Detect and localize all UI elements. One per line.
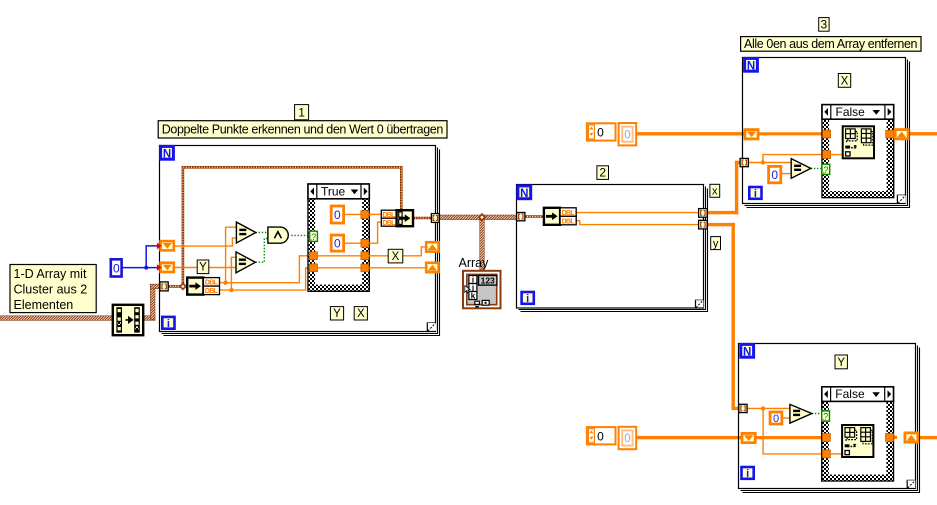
loop 4 indexing tunnel [] (element in) <box>739 404 747 412</box>
wire: cluster array from sort icon up into loop 1 tunnel <box>143 284 161 320</box>
node: equals comparator (loop 3) <box>791 159 811 179</box>
constant 0 (lower, case 1) <box>331 235 361 251</box>
loop 2 count terminal N <box>518 186 531 200</box>
loop 4 left shift register <box>742 433 755 442</box>
label X (wire label, right) <box>388 249 403 263</box>
loop 3 indexing tunnel [] (element in) <box>740 158 748 166</box>
case 1 interior wires: passthrough X and Y <box>318 256 361 268</box>
wire: loop 2 unbundle y out to right tunnel <box>576 221 698 225</box>
svg-text:y: y <box>713 238 719 250</box>
svg-text:DBL: DBL <box>382 212 396 219</box>
label: loop 3 title "Alle 0en aus dem Array entfernen" <box>741 37 921 52</box>
svg-text:i: i <box>754 188 757 200</box>
label X (bottom of loop 1) <box>354 307 367 321</box>
loop 1 left shift register lower (Y) with coercion dot <box>157 263 174 272</box>
label: free text "1-D Array mit Cluster aus 2 Elementen" <box>10 265 96 313</box>
wire: blue iteration-0 constant to both left shift registers <box>122 246 160 270</box>
wire: bundle output cluster to loop 1 right tunnel <box>413 217 431 220</box>
svg-text:Y: Y <box>333 308 341 320</box>
case 4 tunnels <box>822 434 893 458</box>
loop 4 interior wires: shift register array through case with jogs <box>753 433 897 437</box>
svg-text:0: 0 <box>334 208 341 222</box>
case 3 selector bar "False" <box>822 105 894 120</box>
node: replace array subset icon (case 3) <box>843 126 874 158</box>
junction: cluster wire branch inside loop 1 <box>179 282 187 290</box>
wire: loop 3 result array out to right edge <box>908 132 937 135</box>
loop 2 output tunnel y [] <box>699 220 708 229</box>
loop 1 right shift register upper (X) <box>426 242 438 251</box>
loop 4 right shift register <box>905 433 918 442</box>
loop 4 interior: element wire from indexing tunnel to equals and case tunnel <box>747 406 822 454</box>
svg-text:k: k <box>471 291 476 300</box>
loop 3 iteration terminal i <box>749 187 761 200</box>
loop 1 input indexing tunnel [] <box>160 282 168 291</box>
wire: empty array constant to loop 4 shift register <box>636 436 744 439</box>
wire: constant 0 to equals (loop 4) <box>782 417 790 419</box>
loop 3 left shift register <box>745 130 758 139</box>
wire: case 1 output C (X) to right shift register 1 <box>369 247 425 256</box>
label Y (inside loop 4) <box>835 355 847 369</box>
svg-text:X: X <box>392 251 400 263</box>
label y (right of loop 2) <box>711 237 721 251</box>
case 3 selector terminal ? <box>822 164 830 175</box>
svg-text:2: 2 <box>599 166 606 180</box>
wire: case 1 output D (Y) to right shift register 2 <box>369 267 425 269</box>
svg-text:123: 123 <box>481 275 495 285</box>
svg-text:N: N <box>520 188 528 200</box>
loop 3 right shift register <box>895 130 908 139</box>
wire: boolean AND output to case selector <box>291 234 309 236</box>
svg-text:i: i <box>167 318 170 330</box>
case structure 4 (False) body <box>822 387 894 481</box>
svg-text:0: 0 <box>334 237 341 251</box>
node: equals comparator 1 (X = X prev) <box>236 222 255 243</box>
wire: unbundle X out to equals 1 upper input and case tunnel <box>220 227 310 285</box>
constant 0 (loop 4) <box>770 412 782 425</box>
case 4 selector terminal ? <box>822 411 830 422</box>
case 3 tunnels and selector <box>823 130 894 158</box>
wire: cluster array branch down to Array indicator <box>480 217 485 271</box>
loop 2 input indexing tunnel [] <box>517 213 525 221</box>
loop 1 interior: cluster wire from tunnel to unbundle and around to bundle <box>168 167 401 286</box>
svg-text:1-D Array mit: 1-D Array mit <box>14 267 87 281</box>
svg-text:DBL: DBL <box>205 280 219 287</box>
svg-text:DBL: DBL <box>205 288 219 295</box>
wire: case 3 lower tunnel into replace icon <box>831 154 845 156</box>
svg-text:Elementen: Elementen <box>14 298 74 312</box>
svg-text:x: x <box>712 186 718 198</box>
node: sort 1-D array icon <box>113 305 143 335</box>
node: replace array subset icon (case 4) <box>842 425 873 457</box>
svg-text:1: 1 <box>298 105 305 119</box>
loop 3 interior: element wire from indexing tunnel to equals and case tunnel <box>749 155 823 165</box>
loop 3 count terminal N <box>745 58 758 72</box>
svg-text:DBL: DBL <box>382 220 396 227</box>
label 2 (above loop 2) <box>597 166 609 180</box>
for-loop 1 border (stacked frames) <box>160 146 440 336</box>
svg-text:X: X <box>841 75 849 87</box>
node: equals comparator (loop 4) <box>790 404 812 423</box>
loop 3 interior wires: shift register array through case <box>759 132 897 136</box>
wire: boolean equals 2 output to AND gate <box>256 238 268 262</box>
node: unbundle cluster (loop 1) <box>187 278 219 296</box>
svg-text:True: True <box>321 185 346 199</box>
svg-text:0: 0 <box>597 126 604 140</box>
svg-text:0: 0 <box>624 433 630 445</box>
svg-text:False: False <box>836 105 866 119</box>
wire: unbundle Y out to equals 2 upper input and case tunnel <box>220 257 310 292</box>
svg-text:Alle 0en aus dem Array entfern: Alle 0en aus dem Array entfernen <box>744 37 918 51</box>
loop 2 iteration terminal i <box>522 292 534 305</box>
case 1 tunnels: right outputs A B C D <box>361 211 369 272</box>
svg-text:Array: Array <box>459 256 490 270</box>
junction: cluster array wire branch diamond <box>478 213 487 222</box>
wire: loop 2 x output to loop 3 indexing tunnel <box>707 161 742 215</box>
case 1 selector terminal ? <box>310 231 318 242</box>
constant: empty array (init for loop 4) <box>587 427 636 449</box>
wire: constant 0 to equals (loop 3) <box>781 173 791 175</box>
label Y (wire label, left) <box>197 260 209 274</box>
node: bundle cluster (loop 1) <box>381 210 413 227</box>
svg-text:0: 0 <box>624 129 630 141</box>
loop 4 count terminal N <box>741 344 754 358</box>
label X (inside loop 3) <box>838 74 850 88</box>
wire: cluster array from loop 1 output tunnel to loop 2 input tunnel <box>437 215 518 220</box>
loop 1 count terminal N <box>161 146 174 160</box>
case 1 selector bar "True" <box>308 184 369 199</box>
wire: loop 2 y output down to loop 4 indexing tunnel <box>707 223 741 410</box>
svg-text:0: 0 <box>771 168 778 182</box>
case 4 selector bar "False" <box>822 387 894 402</box>
label x (right of loop 2) <box>710 184 720 197</box>
case structure 1 (True) body <box>308 184 369 291</box>
wire: boolean equals output to case selector (loop 4) <box>812 413 822 415</box>
case structure 3 (False) body <box>822 105 894 198</box>
svg-text:Y: Y <box>199 262 207 274</box>
wire: case 4 lower tunnel into replace icon <box>830 453 845 455</box>
loop 1 output indexing tunnel [] <box>431 214 439 223</box>
svg-text:0: 0 <box>113 261 120 275</box>
node: equals comparator 2 (Y = Y prev) <box>236 252 255 273</box>
svg-text:0: 0 <box>773 413 779 425</box>
wire: shift register Y(prev) to equals 2 lower input <box>175 267 236 269</box>
svg-text:N: N <box>747 60 755 72</box>
svg-text:i: i <box>526 293 529 305</box>
for-loop 3 border (stacked frames) <box>743 58 910 208</box>
wire: case 1 output A to bundle top input <box>369 213 381 215</box>
svg-text:DBL: DBL <box>562 218 576 225</box>
loop 2 interior: cluster wire from tunnel to unbundle <box>525 215 544 218</box>
svg-text:N: N <box>163 148 171 160</box>
wire: 1-D cluster array from diagram left edge into sort icon <box>0 316 113 321</box>
label 1 (sequence number above loop 1) <box>295 105 309 120</box>
wire: boolean equals output to case selector (loop 3) <box>811 167 822 169</box>
svg-text:False: False <box>835 387 865 401</box>
svg-text:Doppelte Punkte erkennen und d: Doppelte Punkte erkennen und den Wert 0 … <box>162 123 444 137</box>
loop 1 left shift register upper (X) with coercion dot <box>157 241 174 250</box>
label: loop 1 title "Doppelte Punkte erkennen und den Wert 0 uebertragen" <box>158 121 447 138</box>
constant 0 (upper, case 1) <box>331 206 361 223</box>
node: AND gate <box>268 227 288 243</box>
svg-text:DBL: DBL <box>562 210 576 217</box>
loop 4 iteration terminal i <box>742 467 754 480</box>
wire: case 1 output B to bundle bottom input <box>369 222 381 243</box>
label 3 (above loop 3) <box>819 17 829 31</box>
label Y (bottom of loop 1) <box>330 307 343 321</box>
svg-text:Cluster aus 2: Cluster aus 2 <box>14 282 88 296</box>
wire: loop 4 result array out to right edge <box>918 436 937 439</box>
svg-text:N: N <box>743 346 751 358</box>
loop 1 iteration terminal i <box>162 317 174 330</box>
indicator: Array (1-D cluster array) with label <box>459 256 501 308</box>
svg-text:X: X <box>357 308 365 320</box>
svg-text:3: 3 <box>821 17 828 31</box>
constant 0 (blue, loop count init) <box>111 259 122 276</box>
wire: shift register X(prev) to equals 1 lower input <box>175 238 236 246</box>
constant: empty array (init for loop 3) <box>587 123 636 145</box>
for-loop 2 border (stacked frames) <box>517 185 708 312</box>
svg-text:0: 0 <box>597 429 604 443</box>
svg-text:i: i <box>746 468 749 480</box>
case 1 tunnels: left X in, left Y in <box>309 252 317 272</box>
for-loop 4 border (stacked frames) <box>739 344 920 493</box>
wire: boolean equals 1 output to AND gate <box>256 232 268 234</box>
loop 2 output tunnel x [] <box>699 209 708 218</box>
node: unbundle cluster (loop 2) <box>544 208 576 226</box>
wire: loop 2 unbundle x out to right tunnel <box>576 212 698 214</box>
svg-text:Y: Y <box>837 357 845 369</box>
constant 0 (loop 3) <box>769 166 781 182</box>
wire: empty array constant to loop 3 shift register <box>636 132 746 135</box>
loop 1 right shift register lower (Y) <box>426 263 438 272</box>
